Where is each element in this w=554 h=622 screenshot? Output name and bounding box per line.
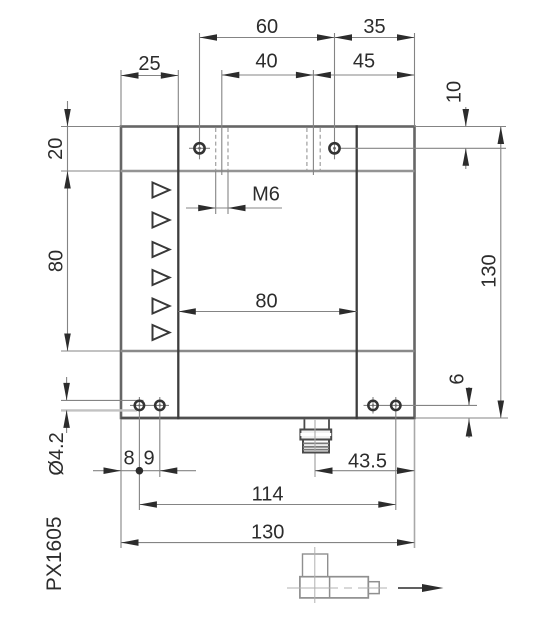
svg-text:80: 80 bbox=[46, 250, 68, 272]
svg-text:43.5: 43.5 bbox=[348, 451, 387, 473]
svg-text:M6: M6 bbox=[252, 184, 280, 206]
svg-text:35: 35 bbox=[363, 16, 385, 38]
svg-text:Ø4.2: Ø4.2 bbox=[46, 432, 68, 475]
svg-text:114: 114 bbox=[252, 484, 284, 506]
svg-text:25: 25 bbox=[138, 53, 160, 75]
svg-text:40: 40 bbox=[255, 51, 277, 73]
svg-text:10: 10 bbox=[444, 81, 466, 103]
svg-text:8: 8 bbox=[123, 448, 134, 470]
svg-text:130: 130 bbox=[251, 522, 284, 544]
svg-text:6: 6 bbox=[447, 373, 469, 384]
svg-text:PX1605: PX1605 bbox=[43, 516, 66, 591]
svg-text:20: 20 bbox=[45, 138, 67, 160]
svg-text:45: 45 bbox=[353, 51, 375, 73]
svg-text:130: 130 bbox=[479, 254, 501, 287]
svg-text:9: 9 bbox=[143, 448, 154, 470]
svg-text:60: 60 bbox=[256, 16, 278, 38]
svg-text:80: 80 bbox=[255, 291, 277, 313]
